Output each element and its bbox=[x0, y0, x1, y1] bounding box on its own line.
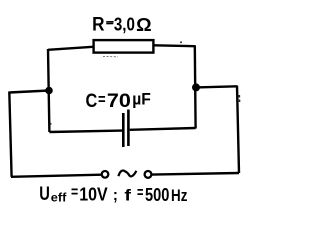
junction node left bbox=[45, 87, 53, 95]
AC source tilde bbox=[118, 170, 136, 176]
svg-text:R: R bbox=[92, 15, 105, 36]
svg-text:f: f bbox=[124, 188, 131, 205]
wire capacitor left lead bbox=[49, 131, 122, 132]
terminal left bbox=[102, 171, 109, 178]
svg-text:Ω: Ω bbox=[136, 14, 152, 35]
junction node right bbox=[192, 83, 200, 91]
capacitor C left plate bbox=[122, 113, 125, 147]
svg-text:=: = bbox=[98, 91, 106, 108]
terminal right bbox=[145, 171, 152, 178]
svg-text:500: 500 bbox=[145, 185, 169, 205]
svg-text:=: = bbox=[71, 184, 78, 201]
resistor R body bbox=[94, 40, 154, 53]
svg-text:=: = bbox=[137, 185, 143, 202]
svg-text:C: C bbox=[86, 91, 98, 112]
svg-text:µF: µF bbox=[132, 90, 151, 109]
svg-text:70: 70 bbox=[107, 90, 131, 112]
wire bottom right bbox=[152, 173, 239, 175]
svg-text:10V: 10V bbox=[79, 185, 107, 205]
svg-text:;: ; bbox=[113, 187, 118, 204]
wire outer right vertical bbox=[237, 86, 239, 174]
wire outer left vertical bbox=[9, 92, 11, 177]
wire left horizontal bbox=[9, 91, 49, 93]
wire top branch left lead bbox=[48, 47, 93, 50]
wire right horizontal bbox=[196, 86, 237, 87]
svg-text:eff: eff bbox=[51, 191, 68, 205]
wire bottom left bbox=[11, 175, 101, 177]
svg-text:U: U bbox=[39, 184, 50, 205]
svg-text:Hz: Hz bbox=[171, 186, 187, 205]
svg-text:3,0: 3,0 bbox=[114, 15, 135, 35]
label R equals sign bbox=[106, 22, 113, 24]
wire inner left vertical bbox=[48, 49, 49, 132]
capacitor C right plate bbox=[127, 110, 130, 147]
wire inner right vertical bbox=[194, 45, 197, 128]
wire top branch right lead bbox=[154, 44, 195, 47]
wire capacitor right lead bbox=[130, 128, 196, 130]
